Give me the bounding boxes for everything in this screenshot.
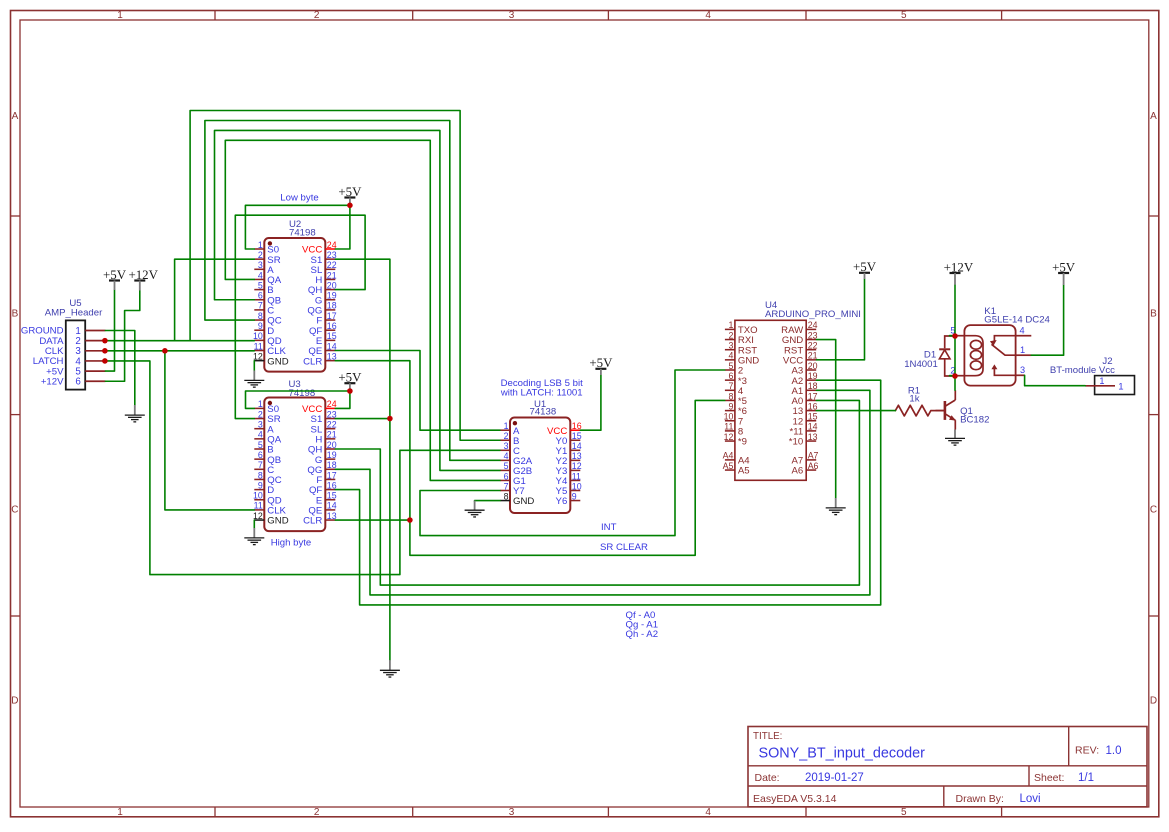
- svg-text:5: 5: [901, 807, 907, 818]
- svg-text:24: 24: [808, 320, 818, 330]
- svg-text:4: 4: [504, 451, 509, 461]
- svg-text:2019-01-27: 2019-01-27: [805, 772, 864, 784]
- svg-text:BT-module Vcc: BT-module Vcc: [1050, 365, 1115, 376]
- svg-text:11: 11: [254, 341, 263, 351]
- junction: [162, 348, 168, 354]
- power +12V: [128, 268, 158, 291]
- svg-text:12: 12: [572, 461, 582, 471]
- svg-text:1k: 1k: [909, 394, 919, 405]
- svg-text:A7: A7: [808, 451, 819, 461]
- svg-text:11: 11: [572, 471, 581, 481]
- wire K1.5 to K1.2 via diode node: [954, 336, 956, 376]
- title block: [748, 727, 1147, 807]
- svg-text:SONY_BT_input_decoder: SONY_BT_input_decoder: [759, 745, 926, 761]
- svg-text:G5LE-14 DC24: G5LE-14 DC24: [984, 315, 1050, 326]
- IC U4 ARDUINO_PRO_MINI: [723, 300, 861, 480]
- wire DATA branch loop to U1.B: [190, 111, 500, 441]
- svg-text:A6: A6: [808, 461, 819, 471]
- junction: [347, 388, 353, 394]
- svg-text:Sheet:: Sheet:: [1034, 772, 1064, 784]
- wire U2.S0 to +5V (Low byte): [245, 205, 350, 249]
- wire U3.GND to ground: [253, 520, 255, 528]
- power +5V: [589, 356, 613, 375]
- power +5V: [338, 371, 362, 392]
- junction: [952, 373, 958, 379]
- svg-text:9: 9: [258, 480, 263, 490]
- svg-text:Lovi: Lovi: [1020, 793, 1041, 805]
- wire +5V to U5.5: [105, 290, 114, 371]
- svg-text:A6: A6: [791, 466, 803, 477]
- svg-text:2: 2: [314, 10, 320, 21]
- wire U4.13 to R1: [816, 410, 895, 412]
- svg-text:13: 13: [572, 451, 582, 461]
- net label INT: [601, 522, 617, 533]
- svg-text:A: A: [12, 111, 19, 122]
- svg-text:SR CLEAR: SR CLEAR: [600, 542, 648, 553]
- svg-text:C: C: [11, 505, 18, 516]
- svg-text:REV:: REV:: [1075, 745, 1099, 757]
- svg-text:Y6: Y6: [556, 496, 568, 507]
- junction: [102, 338, 108, 344]
- wire U3.QF bus to U4.A2: [335, 380, 880, 605]
- svg-text:C: C: [1150, 505, 1157, 516]
- svg-text:6: 6: [258, 450, 263, 460]
- svg-text:11: 11: [254, 501, 263, 511]
- IC U2 74198 shift register: [253, 219, 337, 372]
- svg-text:22: 22: [327, 260, 337, 270]
- svg-text:1: 1: [1099, 376, 1104, 386]
- junction: [102, 348, 108, 354]
- svg-text:13: 13: [808, 432, 818, 442]
- svg-text:6: 6: [75, 377, 81, 388]
- wire +5V to U4.VCC: [816, 279, 864, 360]
- svg-text:B: B: [12, 309, 19, 320]
- svg-text:BC182: BC182: [960, 414, 989, 425]
- svg-text:7: 7: [258, 301, 263, 311]
- net label High byte: [271, 537, 312, 548]
- svg-text:4: 4: [705, 807, 711, 818]
- svg-text:74138: 74138: [530, 407, 557, 418]
- svg-text:3: 3: [509, 10, 515, 21]
- ground: [244, 371, 264, 388]
- svg-text:7: 7: [728, 381, 733, 391]
- svg-text:GND: GND: [513, 496, 534, 507]
- wire U4.GND to ground: [816, 340, 835, 498]
- svg-text:A5: A5: [723, 461, 734, 471]
- svg-text:1: 1: [1020, 345, 1025, 355]
- svg-text:AMP_Header: AMP_Header: [45, 308, 103, 319]
- svg-text:8: 8: [504, 491, 509, 501]
- wire +5V to U3.VCC: [335, 391, 350, 408]
- svg-text:5: 5: [901, 10, 907, 21]
- wire +12V to U5.6: [105, 291, 139, 382]
- svg-text:21: 21: [327, 270, 337, 280]
- svg-text:A: A: [1150, 111, 1157, 122]
- svg-text:1.0: 1.0: [1106, 745, 1122, 757]
- wire GROUND U5.1 to ground: [105, 331, 134, 406]
- svg-text:*10: *10: [789, 437, 803, 448]
- svg-text:2: 2: [504, 431, 509, 441]
- note Qf - A0 / Qg - A1 / Qh - A2: [626, 610, 659, 640]
- svg-text:1: 1: [504, 421, 509, 431]
- svg-text:D: D: [1150, 696, 1157, 707]
- net label SR CLEAR: [600, 542, 648, 553]
- svg-text:4: 4: [705, 10, 711, 21]
- IC U1 74138 decoder: [500, 399, 582, 513]
- wire U2.QA loop to U1.G1: [225, 140, 500, 480]
- svg-text:INT: INT: [601, 522, 617, 533]
- svg-text:8: 8: [258, 470, 263, 480]
- svg-text:Date:: Date:: [755, 772, 780, 784]
- svg-text:5: 5: [504, 461, 509, 471]
- svg-text:12: 12: [724, 432, 734, 442]
- svg-text:6: 6: [258, 291, 263, 301]
- svg-text:74198: 74198: [289, 388, 316, 399]
- wire CLK branch to U3.CLK: [165, 351, 254, 510]
- svg-text:14: 14: [572, 441, 582, 451]
- svg-text:15: 15: [327, 331, 337, 341]
- wire U1.GND to ground: [475, 500, 500, 503]
- svg-text:10: 10: [724, 412, 734, 422]
- svg-text:9: 9: [572, 491, 577, 501]
- wire U2.QB loop to U1.G2B: [215, 130, 501, 470]
- power +5V: [103, 268, 127, 290]
- svg-text:20: 20: [808, 361, 818, 371]
- note Decoding LSB 5 bit with LATCH: 11001: [500, 378, 583, 398]
- resistor R1 1k: [895, 385, 944, 416]
- svg-text:3: 3: [728, 341, 733, 351]
- wire U2.QC loop to U1.G2A: [205, 121, 500, 461]
- svg-text:D: D: [11, 696, 18, 707]
- svg-text:10: 10: [253, 491, 263, 501]
- svg-text:A5: A5: [738, 466, 750, 477]
- svg-text:Low byte: Low byte: [280, 193, 318, 204]
- svg-text:1: 1: [728, 320, 733, 330]
- wire +5V to U1.VCC: [580, 375, 601, 430]
- ground: [465, 501, 485, 517]
- wire U3.S0 to +5V: [246, 391, 350, 408]
- ground: [826, 498, 846, 515]
- wire DATA branch to U2.SR: [175, 259, 255, 341]
- wire U3.QH bus to U4.A0: [335, 400, 859, 585]
- svg-text:22: 22: [327, 420, 337, 430]
- svg-text:1: 1: [1118, 381, 1123, 392]
- wire K1.2 stub link: [949, 375, 955, 377]
- svg-text:Drawn By:: Drawn By:: [956, 793, 1004, 805]
- svg-text:+12V: +12V: [41, 376, 64, 387]
- wire U3.CLR tap: [335, 519, 410, 521]
- svg-text:GND: GND: [267, 516, 288, 527]
- svg-text:3: 3: [1020, 365, 1025, 375]
- svg-text:4: 4: [258, 430, 263, 440]
- svg-text:B: B: [1150, 309, 1157, 320]
- wire U2.S1 down to ground: [335, 259, 390, 660]
- power +5V: [853, 260, 877, 279]
- svg-text:3: 3: [504, 441, 509, 451]
- junction: [347, 203, 353, 209]
- transistor Q1 BC182 NPN: [936, 390, 990, 429]
- wire INT U1.Y7 to U4.2: [420, 370, 725, 536]
- svg-text:3: 3: [258, 260, 263, 270]
- svg-text:5: 5: [258, 280, 263, 290]
- wire LATCH U5.4 to U1.C: [105, 361, 500, 575]
- ground: [125, 405, 145, 422]
- svg-text:19: 19: [327, 291, 337, 301]
- svg-text:5: 5: [258, 440, 263, 450]
- svg-text:with LATCH: 11001: with LATCH: 11001: [500, 387, 583, 398]
- svg-text:16: 16: [327, 321, 337, 331]
- svg-text:21: 21: [327, 430, 337, 440]
- power +5V: [1052, 260, 1076, 285]
- svg-text:5: 5: [728, 361, 733, 371]
- svg-text:6: 6: [504, 471, 509, 481]
- svg-text:15: 15: [572, 431, 582, 441]
- IC U3 74198 shift register: [253, 379, 337, 531]
- svg-text:17: 17: [327, 311, 337, 321]
- svg-text:1/1: 1/1: [1078, 772, 1094, 784]
- svg-text:EasyEDA V5.3.14: EasyEDA V5.3.14: [753, 793, 837, 805]
- svg-text:*9: *9: [738, 437, 747, 448]
- svg-text:7: 7: [258, 460, 263, 470]
- svg-text:1: 1: [117, 10, 123, 21]
- junction: [387, 416, 393, 422]
- wire DATA U5.2 to U2.QD: [105, 340, 254, 342]
- svg-text:15: 15: [327, 491, 337, 501]
- connector U5 AMP_Header: [21, 298, 106, 389]
- svg-text:10: 10: [572, 481, 582, 491]
- svg-text:A4: A4: [723, 451, 734, 461]
- ground: [945, 430, 965, 446]
- svg-text:1N4001: 1N4001: [904, 359, 938, 370]
- svg-text:7: 7: [504, 481, 509, 491]
- wire U2.GND to ground: [253, 361, 255, 371]
- svg-text:ARDUINO_PRO_MINI: ARDUINO_PRO_MINI: [765, 309, 861, 320]
- svg-text:4: 4: [728, 351, 733, 361]
- wire CLK U5.3 to U2.CLK: [105, 350, 254, 352]
- svg-text:2: 2: [728, 330, 733, 340]
- wire U2.QH loop to U3.SR: [235, 215, 365, 418]
- wire SR CLEAR U2.CLR to U4.*5: [335, 361, 724, 556]
- svg-text:15: 15: [808, 412, 818, 422]
- svg-text:74198: 74198: [289, 228, 316, 239]
- svg-text:2: 2: [314, 807, 320, 818]
- power +12V: [944, 260, 974, 285]
- svg-text:9: 9: [258, 321, 263, 331]
- svg-text:19: 19: [327, 450, 337, 460]
- wire K1.2 to Q1 collector: [954, 376, 956, 390]
- svg-text:4: 4: [258, 270, 263, 280]
- svg-text:8: 8: [728, 391, 733, 401]
- svg-text:CLR: CLR: [303, 356, 322, 367]
- svg-text:8: 8: [258, 311, 263, 321]
- svg-text:11: 11: [724, 422, 733, 432]
- svg-text:Qh - A2: Qh - A2: [626, 629, 659, 640]
- ground: [244, 528, 264, 545]
- svg-text:CLR: CLR: [303, 516, 322, 527]
- svg-text:1: 1: [117, 807, 123, 818]
- svg-text:6: 6: [728, 371, 733, 381]
- svg-text:9: 9: [728, 401, 733, 411]
- svg-text:22: 22: [808, 341, 818, 351]
- svg-text:4: 4: [1019, 326, 1024, 336]
- svg-text:3: 3: [509, 807, 515, 818]
- svg-text:18: 18: [327, 301, 337, 311]
- wire U3.S1 tap: [335, 418, 390, 420]
- svg-text:3: 3: [258, 420, 263, 430]
- wire +5V to U2.VCC: [335, 205, 350, 249]
- wire +12V to K1.5: [954, 285, 956, 336]
- svg-text:GND: GND: [267, 356, 288, 367]
- svg-text:1: 1: [258, 399, 263, 409]
- wire K1.5 stub link: [949, 335, 955, 337]
- junction: [102, 358, 108, 364]
- svg-text:2: 2: [258, 409, 263, 419]
- svg-text:14: 14: [327, 501, 337, 511]
- ground: [380, 660, 400, 677]
- svg-text:High byte: High byte: [271, 537, 312, 548]
- junction: [952, 333, 958, 339]
- wire K1.3 to J2.1: [1025, 375, 1086, 385]
- svg-text:17: 17: [327, 470, 337, 480]
- svg-text:TITLE:: TITLE:: [753, 731, 782, 742]
- svg-text:1: 1: [258, 240, 263, 250]
- diode D1 1N4001: [904, 336, 955, 376]
- power +5V: [338, 185, 362, 206]
- connector J2 BT-module Vcc: [1050, 356, 1135, 394]
- svg-text:2: 2: [258, 250, 263, 260]
- relay K1 G5LE-14 DC24: [949, 306, 1050, 386]
- wire K1.1 to +5V: [1031, 285, 1063, 355]
- svg-text:10: 10: [253, 331, 263, 341]
- net label Low byte: [280, 193, 318, 204]
- wire U3.QG bus to U4.A1: [335, 390, 870, 595]
- wire U2.QE to U1.A: [335, 351, 500, 431]
- junction: [407, 517, 413, 523]
- svg-text:14: 14: [808, 422, 818, 432]
